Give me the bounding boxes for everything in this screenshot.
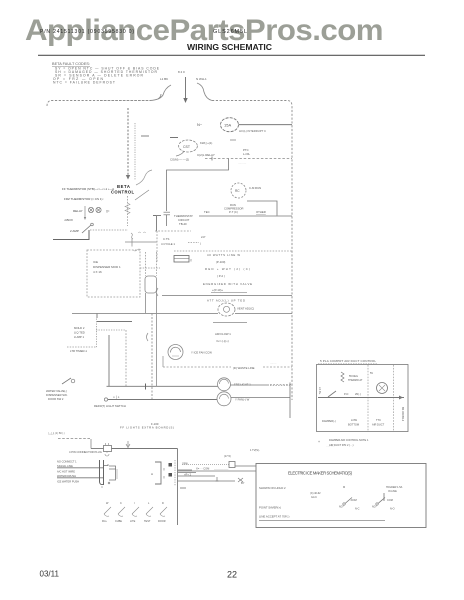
svg-text:FRZ THERMISTOR (□ CS 1) :: FRZ THERMISTOR (□ CS 1) : (64, 197, 104, 201)
svg-text:BETA: BETA (117, 184, 131, 189)
svg-text:LOW: LOW (351, 418, 357, 422)
svg-text:|(: |( (190, 258, 192, 262)
svg-text:ICE WATER PUSH: ICE WATER PUSH (57, 480, 79, 484)
svg-text:NO*: NO* (339, 506, 344, 509)
svg-text:+: + (318, 440, 320, 444)
svg-text:CST: CST (183, 145, 191, 149)
svg-text:A/C HOT WIRE: A/C HOT WIRE (57, 470, 75, 474)
svg-text:NTC = FAILURE DEFROST: NTC = FAILURE DEFROST (53, 81, 115, 85)
svg-text:TB-40: TB-40 (179, 222, 187, 226)
svg-text:4 CYCLE 1: 4 CYCLE 1 (161, 242, 175, 246)
svg-text:ICE: ICE (93, 260, 98, 264)
svg-text:TTC: TTC (376, 418, 381, 422)
svg-text:A: A (151, 472, 153, 476)
svg-text:TEST: TEST (144, 520, 151, 523)
svg-text:VENT ADJ(C): VENT ADJ(C) (237, 307, 254, 311)
svg-text:CONTROL: CONTROL (111, 190, 135, 195)
svg-text:Y FAN(-) W: Y FAN(-) W (235, 398, 250, 402)
svg-text:LUMP 1: LUMP 1 (74, 335, 84, 339)
svg-text:(D) WASTE LINE: (D) WASTE LINE (233, 366, 255, 370)
svg-text:W: W (106, 502, 109, 505)
svg-text:RUN: RUN (230, 203, 236, 207)
svg-text:WATER VALVE(-): WATER VALVE(-) (46, 389, 67, 393)
svg-text:4 X 16: 4 X 16 (93, 270, 102, 274)
svg-text:N-O: N-O (390, 508, 395, 511)
svg-text:GRN: GRN (182, 462, 188, 466)
svg-text:WIRING SCHEMATIC: WIRING SCHEMATIC (187, 43, 272, 52)
svg-text:C: C (120, 502, 122, 505)
svg-text:FF THERMISTOR (STB)—□—□-1 •—A: FF THERMISTOR (STB)—□—□-1 •—A (62, 187, 114, 191)
svg-text:········: ········ (270, 362, 277, 365)
svg-text:X= ··· COM: X= ··· COM (196, 467, 209, 471)
svg-text:40 WATTS LINE W: 40 WATTS LINE W (207, 253, 240, 257)
svg-text:P-N: P-N (344, 393, 349, 396)
svg-text:N WH-1: N WH-1 (196, 77, 207, 81)
svg-text:DISPENSER MOD 1: DISPENSER MOD 1 (93, 265, 121, 269)
svg-text:DAMPER(-): DAMPER(-) (322, 419, 336, 423)
svg-text:5 PLA COMPRT AIR DUCT CONTROL: 5 PLA COMPRT AIR DUCT CONTROL (320, 359, 376, 363)
svg-text:GA C: GA C (311, 496, 317, 499)
svg-text:DISPENSER SW-: DISPENSER SW- (46, 393, 68, 397)
svg-text:LINE ACCEPT AT 70F(·): LINE ACCEPT AT 70F(·) (259, 515, 290, 519)
svg-text:DOOR SW 2: DOOR SW 2 (48, 397, 64, 401)
svg-text:C-M RUN: C-M RUN (249, 186, 261, 190)
svg-text:(|: (| (163, 475, 165, 479)
svg-text:DOOR: DOOR (158, 520, 166, 523)
svg-text:OTHER: OTHER (256, 210, 266, 214)
svg-text:·—— ·: ·—— · (48, 433, 56, 436)
svg-text:LIQ TED: LIQ TED (74, 331, 85, 335)
svg-text:C(2)L RELAY: C(2)L RELAY (197, 153, 215, 157)
svg-text:L-OIL: L-OIL (243, 152, 250, 156)
svg-text:Y ICE FAN CCW: Y ICE FAN CCW (191, 351, 212, 355)
svg-text:NO CONNECT 1: NO CONNECT 1 (57, 460, 77, 464)
svg-text:COMPRESSOR: COMPRESSOR (224, 207, 243, 211)
svg-text:03/11: 03/11 (40, 570, 60, 579)
svg-text:55 DEG: 55 DEG (349, 375, 358, 378)
svg-text:IN LINE: IN LINE (388, 490, 397, 493)
svg-text:D: D (162, 502, 164, 505)
svg-text:FF LIGHTS EXTRA BOARD(S): FF LIGHTS EXTRA BOARD(S) (120, 426, 174, 430)
svg-text:FILL: FILL (102, 520, 108, 523)
svg-text:(C) 40-62: (C) 40-62 (310, 492, 321, 495)
svg-text:2-P: 2-P (201, 235, 205, 239)
svg-text:——————: —————— (214, 468, 229, 471)
svg-text:TEC: TEC (204, 210, 210, 214)
svg-text:LTR TIMER-1: LTR TIMER-1 (70, 349, 87, 353)
svg-text:ENERGIZED WITH VALVE: ENERGIZED WITH VALVE (203, 282, 252, 286)
svg-text:REFR(T) LIGHT SWITCH: REFR(T) LIGHT SWITCH (94, 404, 126, 408)
svg-text:P/N 241511301 (0903595830 0): P/N 241511301 (0903595830 0) (40, 29, 134, 35)
svg-text:MOLD 2: MOLD 2 (74, 326, 85, 330)
svg-text:BETA FAULT CODES:: BETA FAULT CODES: (52, 62, 90, 66)
svg-text:COM: COM (387, 499, 393, 502)
svg-text:+R+ 2: +R+ 2 (184, 473, 192, 477)
svg-text:BK OR BR-2: BK OR BR-2 (401, 407, 404, 422)
svg-text:15A: 15A (224, 123, 231, 128)
svg-text:L: L (148, 502, 150, 505)
svg-text:I: I (134, 502, 135, 505)
svg-text:N~: N~ (197, 122, 203, 127)
svg-text:DAMPER AIR CONTROL NOTE 1: DAMPER AIR CONTROL NOTE 1 (329, 438, 369, 442)
svg-text:P-T (C): P-T (C) (229, 210, 238, 214)
svg-text:LITE: LITE (130, 520, 136, 523)
svg-text:=L= (□)(□): =L= (□)(□) (216, 339, 229, 343)
svg-text:THERMO AT: THERMO AT (348, 379, 363, 382)
svg-text:ELECTRIC ICE MAKER SCHEMATIC(S: ELECTRIC ICE MAKER SCHEMATIC(S) (288, 471, 353, 476)
svg-text:AIR DUCT P/N 2 (···): AIR DUCT P/N 2 (···) (329, 443, 354, 447)
svg-text:(P-100): (P-100) (216, 260, 225, 264)
svg-text:+(P-10)+: +(P-10)+ (212, 288, 223, 292)
svg-text:J-BOX: J-BOX (64, 218, 73, 222)
svg-text:J-1 B+: J-1 B+ (318, 387, 321, 395)
svg-text:( P-2 ): ( P-2 ) (217, 274, 225, 278)
svg-text:): ) (200, 242, 201, 246)
svg-text:··········: ·········· (238, 162, 246, 165)
svg-text:22: 22 (227, 569, 237, 579)
svg-text:FRZ LIGHT-1: FRZ LIGHT-1 (234, 383, 251, 387)
svg-text:RC: RC (235, 189, 240, 193)
svg-text:CUBE: CUBE (115, 520, 122, 523)
svg-text:(|: (| (163, 467, 165, 471)
svg-text:2N(·): 2N(·) (355, 393, 361, 396)
svg-text:ATT ADJ(L) UP TED: ATT ADJ(L) UP TED (207, 299, 245, 303)
svg-text:-COM: -COM (350, 499, 357, 502)
svg-text:GLS26M5L: GLS26M5L (213, 29, 247, 35)
svg-text:NO*: NO* (372, 506, 377, 509)
svg-text:CO(M) —·—(2): CO(M) —·—(2) (170, 158, 189, 162)
svg-text:C.TS: C.TS (163, 237, 170, 241)
svg-text:4 PIN CONNECTOR PLUG: 4 PIN CONNECTOR PLUG (69, 450, 102, 454)
svg-text:AIR FLOW 1: AIR FLOW 1 (215, 332, 231, 336)
svg-text:KW(-)+(1): KW(-)+(1) (200, 141, 212, 145)
svg-text:1 TV(S)-: 1 TV(S)- (250, 448, 260, 452)
svg-text:HI=(L) INTERRUPT C: HI=(L) INTERRUPT C (239, 129, 266, 133)
svg-text:2 AMP: 2 AMP (70, 229, 79, 233)
svg-text:SHOWN ON HOLD 2: SHOWN ON HOLD 2 (259, 486, 286, 490)
svg-text:(17.5): (17.5) (224, 454, 231, 458)
svg-text:8 4 0: 8 4 0 (178, 70, 185, 74)
svg-text:AIR DUCT: AIR DUCT (372, 423, 385, 427)
svg-text:BOTTOM: BOTTOM (348, 423, 359, 427)
svg-text:5V: 5V (370, 372, 373, 375)
svg-text:M: M (343, 486, 345, 489)
svg-text:N-C: N-C (355, 508, 360, 511)
svg-text:⋄ | ⋄: ⋄ | ⋄ (113, 395, 120, 399)
svg-text:POINT SAVER(+): POINT SAVER(+) (259, 506, 281, 510)
svg-text:RELAY: RELAY (73, 209, 83, 213)
svg-text:HOLDER 1.5A: HOLDER 1.5A (386, 486, 403, 489)
svg-text:RED + WHT (2) (C): RED + WHT (2) (C) (205, 267, 250, 271)
svg-text:][ I: ][ I (106, 209, 110, 213)
svg-text:L1 BK: L1 BK (160, 77, 168, 81)
